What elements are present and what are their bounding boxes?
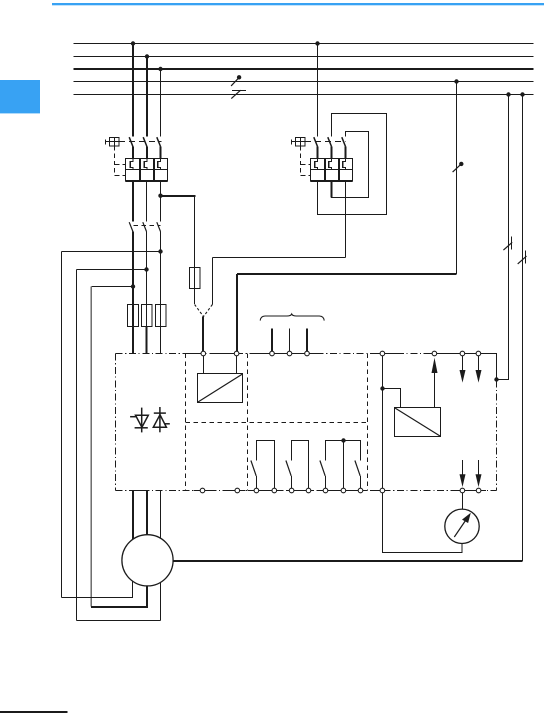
tap symbol on L5 (bar with slash) (231, 90, 246, 98)
breaker Q2 pole2 contact blade (328, 137, 332, 158)
wire dashed V right branch (204, 305, 213, 317)
wire Q2 pole3 output down (345, 182, 347, 258)
breaker Q1 overload heater pole1 (130, 159, 133, 170)
node L5 tap A (506, 92, 510, 96)
node rail2 tap on phase2 (144, 267, 148, 271)
wire phase2 to fuse F2 (146, 270, 148, 305)
wire PSU tap to box (383, 389, 401, 408)
wire terminal2 to converter A1 (236, 354, 238, 374)
wire phase2 fuse to enclosure (146, 327, 148, 354)
wire motor output to L5 drop B (150, 560, 523, 562)
breaker Q2 overload relay box (311, 159, 353, 182)
thyristor V1 (left, pointing down) (130, 408, 148, 433)
internal dashed divider left (185, 354, 187, 491)
wire motor phase3 from enclosure (160, 491, 162, 621)
wire L5 drop B (522, 95, 524, 562)
bypass contact gate 2 (286, 441, 309, 491)
wire rail3 vertical (90, 287, 92, 607)
wire Q2 inner loop (pole2 out to pole3 top) (332, 132, 369, 198)
wire motor loop C (rail2 to motor) (77, 620, 161, 622)
wire motor phase1 from enclosure (132, 491, 134, 561)
breaker Q2 handle (square with cross) (292, 138, 306, 147)
wire rail2 vertical (76, 270, 78, 621)
wire phase1 below Q1 (132, 182, 134, 222)
enclosure bottom edge solid segments at terminals (132, 490, 486, 492)
wire terminal1 to converter A1 (203, 354, 205, 374)
node control tap on phase3 (158, 194, 162, 198)
breaker Q2 mechanical linkage (dashed) (305, 141, 346, 143)
wire measuring path vertical (382, 354, 384, 491)
wire L5 drop A (497, 95, 509, 380)
breaker Q2 trip stub lower (dashed) (301, 175, 311, 177)
wire rail3 horizontal (92, 286, 134, 288)
breaker Q2 overload heater pole3 (343, 159, 346, 170)
internal dashed divider mid (247, 354, 249, 491)
wire phase3 below Q1 (160, 182, 162, 222)
wire dashed V left branch (195, 305, 204, 317)
terminal circles on enclosure bottom edge (200, 488, 481, 493)
wire Q2 pole2 out thick stub (331, 182, 333, 198)
bus line L1 (74, 43, 534, 45)
wire control tap vertical to fuse F4 (194, 195, 196, 268)
node rail3 tap on phase1 (131, 284, 135, 288)
wire rail2 horizontal (77, 269, 147, 271)
node L5 tap B (520, 92, 524, 96)
wire Q2 outer loop (pole1 out to pole2 top) (318, 114, 387, 215)
wire drop L1 to breaker Q2 (317, 44, 319, 137)
wire rail1 vertical (61, 252, 63, 598)
power supply A2 (box with diagonal) (395, 408, 441, 437)
soft starter enclosure (dash-dot box) (116, 354, 497, 491)
contactor K1 pole2 blade (143, 222, 147, 269)
wire motor loop A (rail1 to motor) (62, 560, 133, 598)
wire motor loop B (rail3 to motor, thick) (91, 560, 147, 607)
breaker Q1 overload relay box (126, 159, 168, 182)
enclosure top edge solid segments at terminals (186, 353, 494, 355)
wire terminal 478 to enclosure edge (479, 354, 497, 380)
fuse F3 (156, 305, 167, 327)
wire phase3 to fuse F3 (160, 252, 162, 305)
wire meter to bottom terminal 462 (462, 491, 464, 510)
breaker Q2 pole3 contact blade (342, 137, 346, 158)
wire phase2 drop L2 to Q1 (146, 57, 148, 137)
node PSU tap (380, 386, 384, 390)
breaker Q1 handle (square with cross) (106, 138, 120, 147)
wire V node to terminal 1 (202, 316, 204, 353)
switch symbol on L4 drop (dot with slash) (453, 162, 464, 172)
blue sidebar tab (0, 80, 40, 113)
bus line L2 (74, 56, 534, 58)
breaker Q1 trip stub lower (dashed) (115, 175, 126, 177)
wire phase1 drop L1 to Q1 (132, 44, 134, 137)
internal dashed separator horizontal (186, 422, 368, 424)
breaker Q2 pole1 contact blade (314, 137, 318, 158)
node L1/Q2 feed (315, 41, 319, 45)
wire phase1 fuse to enclosure (132, 327, 134, 354)
bus line L4 (74, 81, 534, 83)
wire below fuse F4 (194, 289, 196, 305)
break mark on L5 drop A (bar and slash) (503, 237, 512, 251)
motor M1 (circle) (122, 535, 173, 586)
breaker Q1 pole3 contact blade (157, 137, 161, 158)
internal dashed divider right (367, 354, 369, 491)
breaker Q1 mechanical linkage (dashed) (119, 141, 162, 143)
contactor K1 linkage (dashed) (134, 225, 161, 227)
wire phase2 below Q1 (146, 182, 148, 222)
header blue rule (52, 3, 544, 5)
fuse F2 (142, 305, 153, 327)
breaker Q1 overload heater pole3 (158, 159, 161, 170)
arrow down at top terminal 462 (460, 354, 466, 383)
wire rail1 horizontal (62, 251, 161, 253)
wire Q2 pole3 output left (213, 257, 346, 259)
breaker Q2 trip stub upper (dashed) (301, 164, 311, 166)
wire phase1 to fuse F1 (132, 252, 134, 305)
bypass contact gate 1 (251, 441, 275, 491)
control stub 3 (306, 329, 308, 354)
terminal circles on enclosure top edge (201, 351, 481, 356)
node rail1 tap on phase3 (158, 249, 162, 253)
bypass contact gate 3 (double with center tap) (320, 441, 361, 491)
breaker Q1 pole1 contact blade (129, 137, 133, 158)
wire control neutral down to terminal 2 (236, 274, 238, 354)
breaker Q1 overload heater pole2 (144, 159, 147, 170)
node L3/phase3 (158, 67, 162, 71)
node enclosure edge / L5 feed (494, 377, 498, 381)
arrow down at top terminal 478 (476, 354, 482, 383)
thyristor V2 (right, pointing up) (153, 407, 170, 432)
bus line L5 (74, 94, 534, 96)
wire control neutral horizontal (237, 273, 457, 275)
fuse F4 control fuse (190, 268, 201, 289)
footer rule (0, 711, 68, 713)
arrow down at bottom terminal 462 (460, 460, 466, 487)
node L2/phase2 (145, 54, 149, 58)
contactor K1 pole1 blade (129, 222, 133, 251)
breaker Q2 trip linkage vertical (dashed) (300, 146, 302, 176)
wire motor phase2 from enclosure (146, 491, 148, 561)
bus line L3 (thick) (74, 68, 534, 70)
break mark on L5 drop B (bar and slash) (518, 251, 527, 264)
breaker Q2 overload heater pole1 (315, 159, 318, 170)
arrow down at bottom terminal 478 (476, 460, 482, 487)
wire phase3 fuse to enclosure (160, 327, 162, 354)
node L1/phase1 (131, 41, 135, 45)
fuse F1 (128, 305, 139, 327)
control stub 1 (271, 329, 273, 354)
node L4 tap (454, 79, 458, 83)
wire L4 drop (456, 82, 458, 275)
breaker Q1 trip linkage vertical (dashed) (114, 146, 116, 176)
control stub 2 (289, 329, 291, 354)
brace over control stubs (260, 314, 324, 321)
breaker Q1 pole2 contact blade (143, 137, 147, 158)
wire phase3 drop L3 to Q1 (160, 69, 162, 137)
tap symbol on L4 (dot with slash) (231, 75, 241, 86)
ammeter P1 (circle with needle) (445, 509, 479, 543)
contactor K1 pole3 blade (157, 222, 161, 251)
breaker Q2 overload heater pole2 (329, 159, 332, 170)
node gate3 center tap (341, 438, 345, 442)
breaker Q1 trip stub upper (dashed) (115, 164, 126, 166)
arrow up from A2 to terminal (432, 358, 438, 408)
wire meter loop from terminal 382 (383, 491, 463, 553)
converter A1 (box with diagonal) (198, 374, 243, 403)
wire control tap horizontal (161, 195, 196, 197)
wire Q2 output down to V branch (212, 258, 214, 305)
